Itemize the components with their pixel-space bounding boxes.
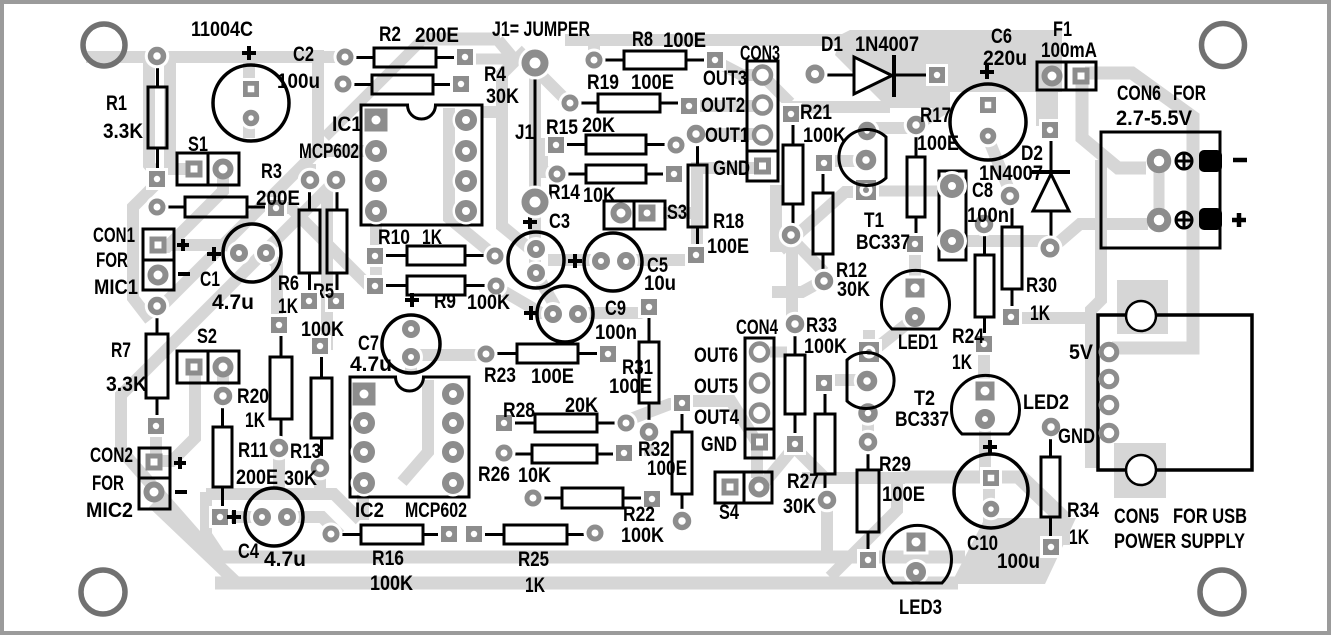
svg-text:R27: R27 xyxy=(787,470,819,493)
svg-text:11004C: 11004C xyxy=(191,18,253,41)
svg-text:5V: 5V xyxy=(1069,341,1093,364)
svg-text:100E: 100E xyxy=(609,375,652,398)
wire xyxy=(751,448,763,478)
svg-text:FOR USB: FOR USB xyxy=(1173,505,1247,528)
resistor R17 xyxy=(904,104,959,255)
svg-text:J1: J1 xyxy=(515,121,534,144)
wire xyxy=(1154,166,1165,214)
svg-text:1K: 1K xyxy=(278,295,298,318)
svg-text:FOR: FOR xyxy=(1173,82,1206,105)
wire xyxy=(243,122,255,138)
svg-text:C4: C4 xyxy=(238,540,259,563)
svg-text:R23: R23 xyxy=(484,364,516,387)
wire xyxy=(413,349,484,361)
capacitor C10 xyxy=(954,440,1040,573)
resistor R32 xyxy=(638,392,694,533)
wire xyxy=(153,503,237,583)
svg-text:IC2: IC2 xyxy=(355,499,384,522)
resistor R21 xyxy=(779,101,846,247)
svg-text:C9: C9 xyxy=(605,297,626,320)
connector CON1 MIC1 xyxy=(93,224,190,299)
switch S2 xyxy=(177,325,239,383)
wire xyxy=(215,577,958,590)
wire xyxy=(321,190,327,344)
svg-text:20K: 20K xyxy=(582,114,615,137)
capacitor C7 xyxy=(350,293,440,376)
svg-text:CON1: CON1 xyxy=(93,224,135,247)
svg-text:R6: R6 xyxy=(278,272,299,295)
wire xyxy=(770,347,787,358)
wire xyxy=(529,70,541,198)
wire xyxy=(565,34,875,46)
wire xyxy=(1045,80,1057,128)
wire xyxy=(1012,312,1086,324)
transistor T1 BC337 xyxy=(839,119,910,254)
svg-text:R11: R11 xyxy=(238,439,268,462)
svg-text:CON3: CON3 xyxy=(740,42,780,65)
svg-text:R9: R9 xyxy=(434,290,456,313)
wire xyxy=(304,164,316,180)
svg-text:MIC1: MIC1 xyxy=(94,276,138,299)
svg-text:R13: R13 xyxy=(290,440,321,463)
resistor R28 xyxy=(493,394,638,435)
resistor R14 xyxy=(546,163,686,208)
wire xyxy=(243,60,255,82)
svg-text:100E: 100E xyxy=(663,29,706,52)
svg-text:MCP602: MCP602 xyxy=(405,499,467,522)
svg-text:CON6: CON6 xyxy=(1117,82,1161,105)
wire xyxy=(821,503,833,557)
svg-text:MIC2: MIC2 xyxy=(86,499,133,522)
wire xyxy=(770,185,782,252)
svg-text:R8: R8 xyxy=(632,28,653,51)
resistor R16 xyxy=(320,523,461,596)
svg-text:100K: 100K xyxy=(467,291,510,314)
switch S4 xyxy=(715,472,772,524)
svg-text:100E: 100E xyxy=(882,483,925,506)
svg-text:R3: R3 xyxy=(261,160,282,183)
resistor R34 xyxy=(1039,415,1100,558)
svg-text:200E: 200E xyxy=(236,466,278,489)
wire xyxy=(1020,477,1066,521)
svg-text:S1: S1 xyxy=(188,133,208,156)
resistor R18 xyxy=(684,122,749,266)
wire xyxy=(529,205,541,270)
wire xyxy=(228,511,252,523)
wire xyxy=(983,480,995,530)
svg-text:R25: R25 xyxy=(518,548,549,571)
resistor R24 xyxy=(952,212,996,374)
capacitor C3 xyxy=(508,210,570,288)
wire xyxy=(266,253,277,322)
svg-text:OUT1: OUT1 xyxy=(705,124,749,147)
resistor R10 xyxy=(364,226,507,268)
wire xyxy=(802,472,905,484)
wire xyxy=(1085,73,1193,240)
capacitor C5 xyxy=(568,233,676,295)
resistor R7 xyxy=(106,294,169,437)
wire xyxy=(1114,443,1166,498)
svg-text:C8: C8 xyxy=(972,179,993,202)
svg-text:OUT4: OUT4 xyxy=(694,406,739,429)
wire xyxy=(862,413,874,442)
svg-text:100u: 100u xyxy=(997,550,1040,573)
svg-text:10u: 10u xyxy=(644,272,676,295)
svg-text:1K: 1K xyxy=(1069,526,1089,549)
wire xyxy=(537,275,555,306)
connector CON3 xyxy=(701,42,780,181)
wire xyxy=(582,309,649,313)
svg-text:R26: R26 xyxy=(478,463,510,486)
resistor R13 xyxy=(284,335,332,490)
wire xyxy=(663,207,695,219)
resistor R6 xyxy=(278,168,322,318)
wire xyxy=(795,448,824,477)
svg-text:1K: 1K xyxy=(1030,302,1050,325)
svg-text:FOR: FOR xyxy=(92,472,124,495)
svg-text:1N4007: 1N4007 xyxy=(855,33,919,56)
svg-text:100u: 100u xyxy=(277,70,320,93)
svg-text:1K: 1K xyxy=(952,351,972,374)
svg-text:4.7u: 4.7u xyxy=(264,548,306,571)
svg-text:30K: 30K xyxy=(837,278,870,301)
svg-text:T2: T2 xyxy=(914,387,935,410)
svg-text:100E: 100E xyxy=(647,457,687,480)
svg-text:LED3: LED3 xyxy=(899,596,942,619)
svg-text:3.3K: 3.3K xyxy=(103,120,143,143)
svg-text:30K: 30K xyxy=(284,467,317,490)
svg-text:R2: R2 xyxy=(379,23,401,46)
resistor R31 xyxy=(609,296,661,444)
wire xyxy=(715,61,760,75)
resistor R30 xyxy=(998,184,1057,328)
svg-text:C6: C6 xyxy=(991,25,1012,48)
mounting hole top-right xyxy=(1202,24,1245,67)
svg-text:OUT2: OUT2 xyxy=(701,94,745,117)
wire xyxy=(405,359,417,375)
svg-text:BC337: BC337 xyxy=(895,408,949,431)
svg-text:R34: R34 xyxy=(1067,499,1099,522)
svg-text:OUT6: OUT6 xyxy=(694,344,738,367)
svg-text:R19: R19 xyxy=(587,71,619,94)
wire xyxy=(422,33,500,46)
svg-text:1K: 1K xyxy=(422,226,442,249)
resistor R5 xyxy=(301,168,348,341)
resistor R29 xyxy=(856,430,925,571)
wire xyxy=(502,50,536,254)
wire xyxy=(498,40,513,58)
wire xyxy=(874,319,913,350)
wire xyxy=(482,106,500,118)
resistor R23 xyxy=(475,343,620,389)
wire xyxy=(150,430,162,468)
wire xyxy=(1091,160,1101,468)
jumper J1 xyxy=(492,18,590,219)
wire xyxy=(825,374,866,386)
svg-text:R30: R30 xyxy=(1026,274,1057,297)
wire xyxy=(791,238,824,272)
wire xyxy=(835,30,1062,126)
wire xyxy=(533,67,568,102)
resistor R9 xyxy=(364,275,510,315)
svg-text:GND: GND xyxy=(713,157,750,180)
svg-text:30K: 30K xyxy=(783,495,816,518)
resistor R27 xyxy=(783,372,839,518)
mounting hole bottom-left xyxy=(81,570,125,614)
svg-text:20K: 20K xyxy=(565,394,598,417)
op-amp IC2 MCP602 xyxy=(350,377,469,522)
svg-text:4.7u: 4.7u xyxy=(350,353,392,376)
wire xyxy=(988,138,1010,192)
connector CON2 MIC2 xyxy=(86,444,187,522)
wire xyxy=(696,128,760,140)
switch S3 xyxy=(604,201,687,229)
svg-text:R22: R22 xyxy=(623,503,655,526)
svg-text:100K: 100K xyxy=(370,572,413,595)
wire xyxy=(166,245,239,253)
wire xyxy=(588,42,600,58)
wire xyxy=(978,346,990,388)
wire xyxy=(684,401,756,441)
wire xyxy=(289,517,340,535)
wire xyxy=(689,100,760,112)
switch S1 xyxy=(177,133,239,185)
wire xyxy=(402,380,428,482)
svg-text:R10: R10 xyxy=(378,226,410,249)
wire xyxy=(370,214,382,286)
diode D1 1N4007 xyxy=(803,33,949,97)
transistor T2 BC337 xyxy=(847,339,949,431)
svg-text:D1: D1 xyxy=(821,33,843,56)
svg-text:10K: 10K xyxy=(518,464,551,487)
wire xyxy=(951,518,1076,584)
wire xyxy=(312,50,324,150)
wire xyxy=(86,51,342,63)
resistor R8 xyxy=(583,28,727,72)
wire xyxy=(1058,224,1148,243)
svg-text:F1: F1 xyxy=(1053,18,1072,41)
svg-text:C2: C2 xyxy=(293,43,314,66)
svg-text:R18: R18 xyxy=(713,210,744,233)
wire xyxy=(765,446,795,482)
connector CON5 USB xyxy=(1058,301,1252,553)
wire xyxy=(978,226,990,240)
resistor R33 xyxy=(783,312,847,455)
wire xyxy=(790,101,890,113)
svg-text:R33: R33 xyxy=(806,314,837,337)
svg-text:R7: R7 xyxy=(111,339,131,362)
connector CON6 xyxy=(1101,82,1247,248)
wire xyxy=(314,470,326,488)
wire xyxy=(548,254,598,266)
svg-text:GND: GND xyxy=(701,433,737,456)
wire xyxy=(158,172,223,247)
wire xyxy=(278,208,369,286)
svg-text:100E: 100E xyxy=(631,71,674,94)
capacitor C4 xyxy=(227,488,306,571)
svg-text:R4: R4 xyxy=(484,63,506,86)
resistor R4 xyxy=(332,63,520,108)
svg-text:BC337: BC337 xyxy=(856,231,910,254)
svg-text:CON4: CON4 xyxy=(736,316,778,339)
capacitor C2 xyxy=(213,43,320,141)
svg-text:100K: 100K xyxy=(803,124,846,147)
resistor R26 xyxy=(478,442,635,488)
svg-text:200E: 200E xyxy=(256,187,300,210)
svg-text:100mA: 100mA xyxy=(1041,39,1097,62)
svg-text:C7: C7 xyxy=(358,332,379,355)
wire xyxy=(875,186,944,197)
wire xyxy=(325,36,426,137)
wire xyxy=(979,421,991,474)
svg-text:LED2: LED2 xyxy=(1023,391,1069,414)
wire xyxy=(863,330,875,350)
svg-text:100K: 100K xyxy=(804,335,847,358)
wire xyxy=(273,450,285,490)
wire xyxy=(786,238,798,320)
wire xyxy=(217,370,229,392)
svg-text:30K: 30K xyxy=(486,85,519,108)
svg-text:R28: R28 xyxy=(503,399,535,422)
wire xyxy=(121,180,336,555)
svg-text:C10: C10 xyxy=(967,532,998,555)
svg-text:200E: 200E xyxy=(415,24,459,47)
svg-text:J1= JUMPER: J1= JUMPER xyxy=(492,18,590,41)
LED1 xyxy=(882,270,950,354)
resistor R3 xyxy=(146,160,301,219)
svg-text:C1: C1 xyxy=(200,268,220,291)
resistor R22 xyxy=(522,487,665,548)
svg-text:100K: 100K xyxy=(301,318,344,341)
wire xyxy=(864,122,914,134)
LED2 xyxy=(952,375,1070,434)
svg-text:CON2: CON2 xyxy=(90,444,133,467)
wire xyxy=(905,471,1025,484)
wire xyxy=(170,57,192,169)
resistor R11 xyxy=(209,384,278,528)
wire xyxy=(830,478,897,577)
capacitor C1 xyxy=(200,224,281,314)
svg-text:100n: 100n xyxy=(595,321,637,344)
svg-text:FOR: FOR xyxy=(96,249,128,272)
wire xyxy=(780,192,864,250)
capacitor C8 xyxy=(937,171,1009,260)
wire xyxy=(644,435,654,456)
svg-text:R29: R29 xyxy=(879,453,911,476)
fuse F1 100mA xyxy=(1037,18,1097,90)
mounting hole bottom-right xyxy=(1200,570,1244,614)
svg-text:LED1: LED1 xyxy=(898,331,938,354)
wire xyxy=(909,248,921,284)
svg-text:S2: S2 xyxy=(197,325,217,348)
svg-text:CON5: CON5 xyxy=(1114,505,1159,528)
wire xyxy=(1054,515,1070,545)
svg-text:OUT3: OUT3 xyxy=(703,67,747,90)
wire xyxy=(1112,238,1193,348)
wire xyxy=(357,486,369,520)
resistor R25 xyxy=(463,522,607,598)
svg-text:R17: R17 xyxy=(920,104,951,127)
wire xyxy=(628,254,692,266)
svg-text:100n: 100n xyxy=(967,204,1009,227)
capacitor C9 xyxy=(524,286,637,344)
svg-text:4.7u: 4.7u xyxy=(212,291,254,314)
resistor R20 xyxy=(237,314,292,460)
svg-text:1K: 1K xyxy=(245,409,265,432)
svg-text:OUT5: OUT5 xyxy=(694,375,738,398)
wire xyxy=(762,75,790,103)
wire xyxy=(918,106,948,124)
resistor R15 xyxy=(545,114,688,157)
wire xyxy=(697,168,760,250)
resistor R12 xyxy=(812,152,870,301)
svg-text:R20: R20 xyxy=(237,385,269,408)
svg-text:100E: 100E xyxy=(531,365,574,388)
svg-text:MCP602: MCP602 xyxy=(299,140,359,163)
svg-text:1K: 1K xyxy=(525,574,545,597)
wire xyxy=(498,288,551,313)
svg-text:R1: R1 xyxy=(106,92,127,115)
svg-text:S3: S3 xyxy=(667,201,687,224)
svg-text:2.7-5.5V: 2.7-5.5V xyxy=(1116,107,1192,130)
wire xyxy=(628,404,680,420)
wire xyxy=(449,108,495,256)
svg-text:220u: 220u xyxy=(983,47,1027,70)
resistor R19 xyxy=(559,71,701,117)
resistor R2 xyxy=(334,23,477,69)
label 11004C xyxy=(191,18,253,41)
svg-text:100E: 100E xyxy=(707,235,749,258)
capacitor C6 xyxy=(950,25,1027,160)
wire xyxy=(1082,82,1146,168)
wire xyxy=(158,370,195,461)
svg-text:S4: S4 xyxy=(719,501,739,524)
svg-text:3.3K: 3.3K xyxy=(106,373,147,396)
svg-text:10K: 10K xyxy=(583,184,616,207)
wire xyxy=(535,138,553,150)
wire xyxy=(133,183,157,320)
wire xyxy=(952,235,1048,247)
svg-text:POWER SUPPLY: POWER SUPPLY xyxy=(1114,530,1245,553)
svg-text:C3: C3 xyxy=(549,210,570,233)
svg-text:R14: R14 xyxy=(548,181,580,204)
connector CON4 xyxy=(694,316,778,458)
wire xyxy=(149,57,157,174)
svg-text:R16: R16 xyxy=(372,547,404,570)
svg-text:R21: R21 xyxy=(800,101,832,124)
svg-text:R24: R24 xyxy=(952,325,984,348)
mounting hole top-left xyxy=(83,24,125,66)
wire xyxy=(824,155,864,167)
svg-text:IC1: IC1 xyxy=(332,113,362,136)
op-amp IC1 MCP602 xyxy=(299,105,482,225)
wire xyxy=(474,54,524,65)
diode D2 1N4007 xyxy=(979,119,1070,261)
svg-text:R15: R15 xyxy=(546,116,578,139)
wire xyxy=(772,280,824,292)
wire xyxy=(218,551,965,564)
svg-text:100K: 100K xyxy=(621,524,664,547)
wire xyxy=(1117,280,1168,334)
wire xyxy=(206,492,220,556)
wire xyxy=(542,148,553,172)
wire xyxy=(206,494,360,520)
LED3 xyxy=(884,525,952,619)
svg-text:GND: GND xyxy=(1058,425,1095,448)
resistor R1 xyxy=(103,44,169,190)
svg-text:T1: T1 xyxy=(864,209,884,232)
wire xyxy=(157,151,376,306)
